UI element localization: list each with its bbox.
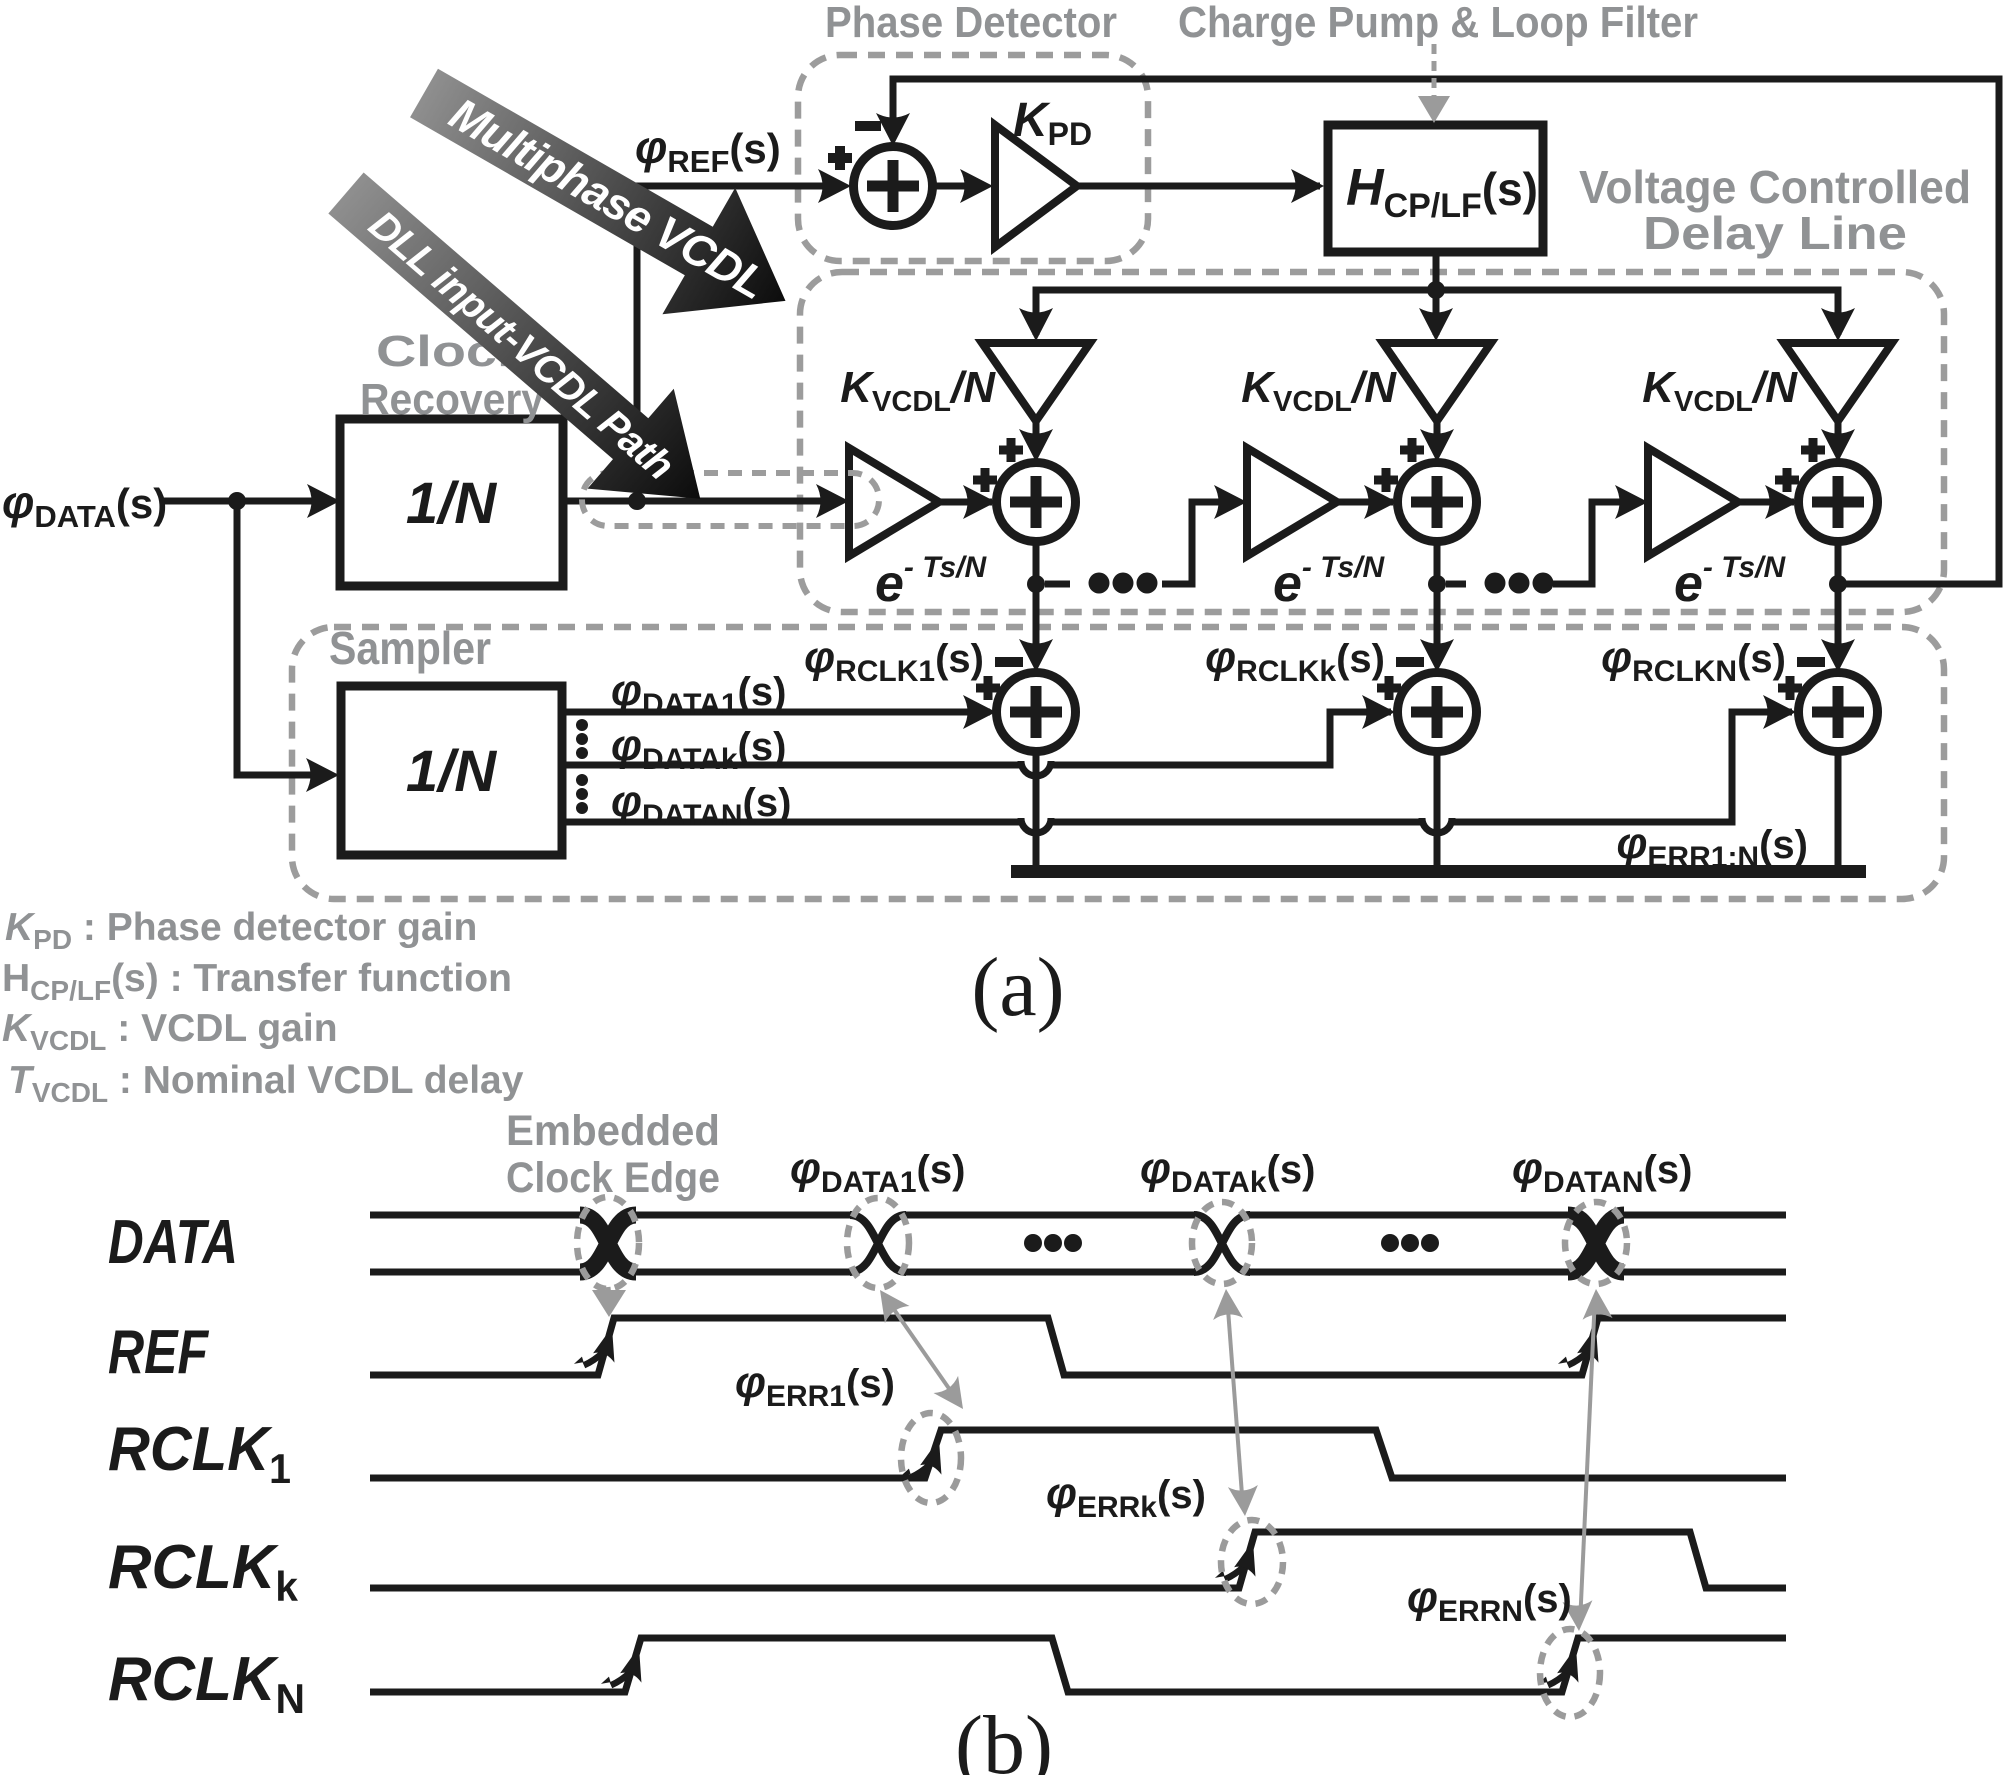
svg-text:φDATAN(s): φDATAN(s) xyxy=(1512,1144,1692,1199)
pill dashed highlight xyxy=(582,473,879,526)
wire ref tap up xyxy=(637,186,843,501)
svg-text:e- Ts/N: e- Ts/N xyxy=(875,551,987,613)
waveform RCLK1 xyxy=(370,1430,1786,1478)
svg-text:KVCDL : VCDL gain: KVCDL : VCDL gain xyxy=(2,1007,338,1056)
svg-text:RCLK1: RCLK1 xyxy=(108,1415,291,1492)
amplifier KVCDL/N stage 3 xyxy=(1784,343,1892,421)
svg-text:φERR1(s): φERR1(s) xyxy=(735,1358,895,1413)
svg-text:φRCLKk(s): φRCLKk(s) xyxy=(1205,633,1385,688)
gray dashed arrow charge pump xyxy=(1432,44,1437,98)
delay buffer e^-Ts/N stage 1 xyxy=(849,448,939,556)
gray arrow phi ERR1 xyxy=(886,1298,957,1400)
svg-text:KVCDL/N: KVCDL/N xyxy=(1241,363,1397,418)
stage 1 wires xyxy=(1033,421,1040,436)
svg-text:Recovery: Recovery xyxy=(360,375,544,424)
gray arrow phi ERRN xyxy=(1580,1296,1595,1624)
svg-text:Charge Pump & Loop Filter: Charge Pump & Loop Filter xyxy=(1178,0,1698,47)
DATA dots xyxy=(1024,1234,1439,1252)
svg-text:KPD : Phase detector gain: KPD : Phase detector gain xyxy=(5,906,477,955)
svg-text:φRCLK1(s): φRCLK1(s) xyxy=(804,633,984,688)
op-amp KPD triangle xyxy=(995,125,1077,247)
wire clock recovery out xyxy=(563,498,840,505)
svg-text:φERRk(s): φERRk(s) xyxy=(1046,1469,1206,1524)
wire KPD to H box xyxy=(1077,183,1320,190)
sampler data1 wire xyxy=(562,709,990,716)
sampler circle signs xyxy=(976,676,1802,700)
amplifier KVCDL/N stage 1 xyxy=(982,343,1090,421)
clock edge hooks xyxy=(574,1320,623,1373)
bus bar xyxy=(1011,865,1866,878)
svg-text:Delay Line: Delay Line xyxy=(1643,207,1907,259)
node distribution xyxy=(1427,281,1445,299)
DATA crossing thin 3 xyxy=(1194,1215,1250,1272)
svg-text:KPD: KPD xyxy=(1013,94,1092,152)
svg-text:φRCLKN(s): φRCLKN(s) xyxy=(1601,633,1786,688)
VCDL dashed box xyxy=(800,272,1944,612)
waveform RCLKN xyxy=(370,1638,1786,1692)
svg-text:(b): (b) xyxy=(955,1699,1053,1775)
svg-text:REF: REF xyxy=(108,1318,210,1387)
DATA crossing thick 1 xyxy=(580,1215,636,1272)
gray labels part a xyxy=(329,0,1971,674)
sampler datan wire with hops xyxy=(562,819,1021,826)
H CP/LF box xyxy=(1328,125,1543,252)
summing junction VCDL stage 1 xyxy=(997,463,1076,542)
svg-text:Voltage Controlled: Voltage Controlled xyxy=(1579,161,1971,213)
svg-text:KVCDL/N: KVCDL/N xyxy=(1642,363,1798,418)
waveform REF xyxy=(370,1318,1786,1375)
svg-text:φDATAk(s): φDATAk(s) xyxy=(1140,1144,1315,1199)
summing junction sampler N xyxy=(1799,673,1878,752)
arrowheads part a xyxy=(307,484,340,518)
sampler box 1/N xyxy=(341,686,562,855)
wire H box down xyxy=(1433,252,1440,290)
svg-text:1/N: 1/N xyxy=(406,471,497,536)
svg-text:RCLKk: RCLKk xyxy=(108,1533,299,1610)
sampler datak wire with hop xyxy=(562,762,1021,769)
waveform RCLKk xyxy=(370,1532,1786,1588)
legend gray xyxy=(2,906,524,1108)
svg-text:φERR1:N(s): φERR1:N(s) xyxy=(1616,819,1808,874)
svg-text:e- Ts/N: e- Ts/N xyxy=(1674,551,1786,613)
svg-text:φDATA1(s): φDATA1(s) xyxy=(611,666,786,721)
svg-text:φDATAk(s): φDATAk(s) xyxy=(611,721,786,776)
summing junction phase detector xyxy=(854,147,933,226)
svg-text:Multiphase VCDL: Multiphase VCDL xyxy=(441,88,774,309)
svg-text:1/N: 1/N xyxy=(406,739,497,804)
waveform DATA top line with crossings xyxy=(370,1215,1786,1272)
delay buffer e^-Ts/N stage 3 xyxy=(1648,448,1738,556)
big arrow Multiphase VCDL xyxy=(388,30,822,364)
phase detector dashed box xyxy=(798,55,1148,261)
stage 2 wires xyxy=(1434,421,1441,436)
summing junction sampler 1 xyxy=(997,673,1076,752)
DATA crossing thick 4 xyxy=(1568,1215,1624,1272)
PD plus minus xyxy=(828,126,881,170)
svg-text:HCP/LF(s) : Transfer function: HCP/LF(s) : Transfer function xyxy=(2,957,512,1006)
labels part b black xyxy=(108,1144,1692,1722)
svg-text:φDATAN(s): φDATAN(s) xyxy=(611,777,791,832)
sampler outputs down to bus xyxy=(1033,750,1040,866)
svg-text:φREF(s): φREF(s) xyxy=(635,121,781,179)
node clock recovery out xyxy=(628,492,646,510)
svg-text:(a): (a) xyxy=(971,941,1064,1034)
svg-text:φDATA(s): φDATA(s) xyxy=(2,476,167,534)
clock recovery box 1/N xyxy=(340,419,563,586)
svg-text:e- Ts/N: e- Ts/N xyxy=(1273,551,1385,613)
svg-text:TVCDL : Nominal VCDL delay: TVCDL : Nominal VCDL delay xyxy=(8,1059,524,1108)
svg-text:RCLKN: RCLKN xyxy=(108,1645,305,1722)
amplifier KVCDL/N stage 2 xyxy=(1383,343,1491,421)
wire VCDL distribution xyxy=(1036,290,1838,335)
gray arrow phi ERRk xyxy=(1227,1296,1243,1508)
svg-text:Clock Edge: Clock Edge xyxy=(506,1154,720,1202)
DATA crossing thin 2 xyxy=(850,1215,906,1272)
svg-text:φDATA1(s): φDATA1(s) xyxy=(790,1144,965,1199)
summing junction sampler k xyxy=(1398,673,1477,752)
labels part b gray xyxy=(506,1107,720,1202)
wire PD to KPD xyxy=(931,183,986,190)
wire phi_DATA input xyxy=(160,498,330,505)
svg-text:DATA: DATA xyxy=(108,1208,238,1277)
wire junction down to sampler xyxy=(237,501,330,775)
svg-text:Sampler: Sampler xyxy=(329,622,491,674)
svg-text:Phase Detector: Phase Detector xyxy=(825,0,1117,47)
VCDL circle signs xyxy=(973,438,1825,492)
sampler dashed box xyxy=(292,627,1944,899)
gray dashed ellipses xyxy=(577,1197,1627,1717)
big arrow DLL input-VCDL Path xyxy=(303,143,744,549)
summing junction VCDL stage 3 xyxy=(1799,463,1878,542)
svg-text:φERRN(s): φERRN(s) xyxy=(1407,1573,1572,1628)
black signal labels part a xyxy=(2,94,1808,874)
svg-text:Embedded: Embedded xyxy=(506,1107,720,1155)
gray arrow embedded clock edge xyxy=(608,1287,609,1297)
summing junction VCDL stage 2 xyxy=(1398,463,1477,542)
stage 3 wires xyxy=(1835,421,1842,436)
svg-text:KVCDL/N: KVCDL/N xyxy=(840,363,996,418)
sampler vertical dots xyxy=(576,719,588,814)
node input junction xyxy=(228,492,246,510)
wire feedback top xyxy=(893,79,1999,584)
delay buffer e^-Ts/N stage 2 xyxy=(1247,448,1337,556)
